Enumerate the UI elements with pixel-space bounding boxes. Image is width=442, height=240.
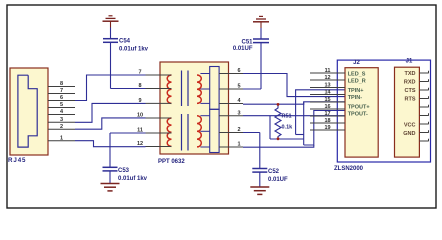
RJ45 pin 2	[48, 124, 75, 130]
svg-text:18: 18	[324, 118, 330, 124]
svg-text:7: 7	[60, 88, 63, 94]
svg-text:19: 19	[324, 125, 330, 131]
svg-text:12: 12	[324, 75, 330, 81]
wire to J2 pin 16	[304, 111, 345, 146]
svg-text:LED_S: LED_S	[348, 72, 366, 78]
svg-text:RJ45: RJ45	[8, 157, 26, 164]
T1 choke block bottom	[210, 109, 219, 152]
RJ45 pin 3	[48, 117, 75, 123]
svg-text:6: 6	[60, 95, 63, 101]
svg-text:C53: C53	[118, 168, 130, 174]
svg-text:5: 5	[237, 84, 240, 90]
label C54	[119, 39, 149, 53]
label RJ45	[8, 157, 26, 164]
T1 primary winding bottom-left	[167, 118, 171, 146]
T1 secondary winding bottom-right	[197, 116, 201, 147]
T1 pin 12	[137, 141, 172, 147]
svg-text:C52: C52	[268, 169, 280, 175]
capacitor C52	[252, 169, 267, 173]
label ZLSN2000	[334, 166, 364, 172]
wire T1.6 branch	[243, 74, 345, 97]
svg-text:PPT 0632: PPT 0632	[158, 159, 185, 165]
RJ45 pin 6	[48, 95, 75, 101]
label C52	[268, 169, 288, 183]
module ZLSN2000 outline	[337, 60, 430, 162]
wire T1.11 to C53 node	[110, 133, 146, 167]
svg-text:RXD: RXD	[404, 80, 416, 86]
svg-text:3: 3	[237, 110, 240, 116]
svg-text:17: 17	[324, 111, 330, 117]
J1 pin 1	[419, 71, 428, 73]
T1 pin 1	[219, 142, 243, 148]
J1 pin 8	[419, 130, 428, 132]
T1 pin 4	[219, 98, 243, 104]
svg-text:0.01uf 1kv: 0.01uf 1kv	[118, 176, 148, 182]
svg-text:16: 16	[324, 104, 330, 110]
T1 pin 7	[138, 70, 171, 76]
svg-text:LED_R: LED_R	[348, 79, 366, 85]
wire R51 bottom to T1.3 net	[269, 116, 271, 139]
svg-text:1: 1	[237, 142, 240, 148]
wire RJ45.1 to T1.12	[75, 141, 146, 147]
wire T1.1 long	[243, 145, 314, 147]
wire R51 column	[303, 102, 305, 145]
T1 pin 6	[219, 68, 243, 74]
J1 pin 4	[419, 96, 428, 98]
RJ45 pin 8	[48, 81, 75, 87]
T1 internal links bottom	[200, 116, 210, 147]
svg-text:J1: J1	[406, 59, 413, 65]
J2 pin 19	[310, 125, 345, 131]
svg-text:5: 5	[60, 102, 63, 108]
junction dot R51 bottom	[277, 137, 280, 140]
wire R51 bottom	[270, 138, 304, 140]
svg-text:0.01uf 1kv: 0.01uf 1kv	[119, 47, 149, 53]
wire RJ45.2 to T1.10	[75, 118, 146, 129]
J2 pin 12	[310, 75, 345, 81]
svg-text:TPIN-: TPIN-	[348, 95, 363, 101]
wire RJ45.6 to T1.7	[75, 75, 146, 101]
ground above C51	[253, 16, 269, 21]
T1 pin 9	[138, 98, 171, 104]
T1 pin 5	[219, 84, 243, 90]
svg-text:3: 3	[60, 117, 63, 123]
RJ45 pin 1	[48, 135, 75, 141]
svg-text:2: 2	[60, 124, 63, 130]
J2 pin 17	[310, 111, 345, 117]
svg-text:13: 13	[324, 82, 330, 88]
J1 pin 5	[419, 105, 428, 107]
svg-text:11: 11	[325, 68, 331, 74]
ground above C54	[103, 16, 119, 21]
wire T1.3 to J2 pin 17	[243, 115, 345, 117]
wire T1.2 to C52	[243, 133, 260, 169]
C53 ground stem	[109, 171, 111, 184]
wire T1.4 to J2 pin 15	[243, 102, 345, 104]
C52 ground stem	[259, 172, 261, 187]
svg-text:0.01UF: 0.01UF	[233, 46, 253, 52]
RJ45 pin 7	[48, 88, 75, 94]
svg-text:6: 6	[237, 68, 240, 74]
wire link to R51 bottom net	[296, 134, 304, 136]
wire C54 to T1.8	[111, 42, 146, 88]
connector RJ45 body	[10, 68, 48, 155]
label PPT 0632	[158, 159, 185, 165]
T1 secondary winding top-right	[197, 75, 201, 103]
capacitor C53	[103, 167, 118, 171]
svg-text:RTS: RTS	[405, 97, 416, 103]
T1 primary winding top-left	[167, 75, 171, 103]
transformer PPT0632 body	[160, 62, 229, 154]
svg-text:GND: GND	[403, 131, 415, 137]
junction dot R51 top	[277, 103, 280, 106]
J1 pin 2	[419, 79, 428, 81]
wire C51 to T1.5	[243, 43, 261, 89]
J2 pin 13	[310, 82, 345, 88]
J2 pin 11	[310, 68, 345, 74]
J2 pin 15	[310, 97, 345, 103]
label C53	[118, 168, 148, 182]
header J1 body	[395, 67, 420, 157]
J1 pin 9	[419, 139, 428, 141]
wire to J2 pin 13	[296, 90, 345, 135]
J1 pin names	[403, 71, 416, 137]
RJ45 pin 4	[48, 109, 75, 115]
svg-text:8: 8	[60, 81, 63, 87]
C51 ground stem	[260, 22, 262, 39]
header J2 body	[345, 68, 378, 157]
label C51	[233, 40, 253, 53]
capacitor C51	[253, 39, 269, 43]
T1 pin 2	[219, 127, 243, 133]
T1 internal links top	[200, 74, 210, 104]
J1 pin 3	[419, 88, 428, 90]
label R51	[282, 114, 294, 131]
svg-text:VCC: VCC	[404, 123, 416, 129]
svg-text:TPOUT+: TPOUT+	[348, 105, 370, 111]
svg-text:R51: R51	[282, 114, 292, 120]
svg-text:C54: C54	[119, 39, 131, 45]
T1 pin 8	[138, 83, 171, 89]
J1 pin 6	[419, 113, 428, 115]
J2 pin 16	[310, 104, 345, 110]
svg-text:ZLSN2000: ZLSN2000	[334, 166, 364, 172]
T1 pin 11	[137, 128, 171, 134]
T1 choke block top	[210, 67, 219, 110]
T1 core top	[182, 71, 189, 107]
wire RJ45.3 to T1.9	[75, 103, 146, 122]
RJ45 pin 5	[48, 102, 75, 108]
svg-text:TPIN+: TPIN+	[348, 88, 364, 94]
svg-text:14: 14	[324, 89, 331, 95]
svg-text:TPOUT-: TPOUT-	[348, 112, 368, 118]
RJ45 jack outline	[18, 75, 37, 147]
ground below C52	[250, 187, 269, 194]
svg-text:J2: J2	[353, 60, 360, 66]
T1 core bottom	[182, 114, 189, 151]
svg-text:2: 2	[237, 127, 240, 133]
T1 pin 10	[137, 113, 172, 119]
svg-text:TXD: TXD	[405, 71, 416, 77]
J2 pin 14	[310, 89, 345, 95]
C54 ground stem	[110, 21, 112, 39]
svg-text:15: 15	[324, 97, 330, 103]
svg-text:0.1k: 0.1k	[282, 125, 294, 131]
resistor R51	[275, 105, 281, 140]
svg-text:CTS: CTS	[405, 88, 416, 94]
svg-text:0.01UF: 0.01UF	[268, 177, 288, 183]
T1 pin 3	[219, 110, 243, 116]
J1 pin 7	[419, 122, 428, 124]
ground below C53	[101, 184, 120, 191]
svg-text:C51: C51	[241, 40, 253, 46]
capacitor C54	[103, 39, 118, 43]
J2 pin 18	[310, 118, 345, 124]
label J1	[406, 59, 413, 65]
label J2	[353, 60, 360, 66]
svg-text:1: 1	[60, 135, 63, 141]
J2 pin names	[348, 72, 370, 118]
